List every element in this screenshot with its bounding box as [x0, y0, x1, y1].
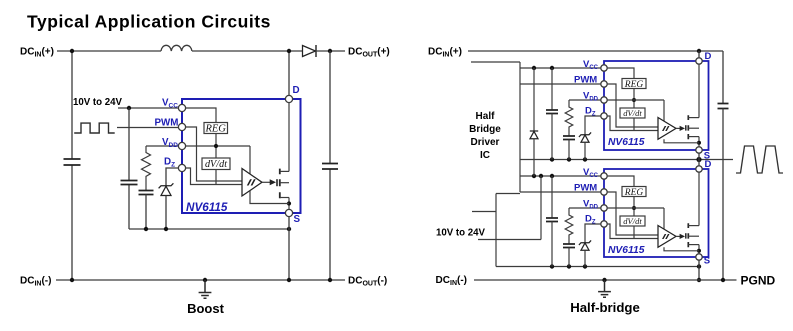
wire bottom ground rail — [56, 279, 345, 281]
wire top rail left segment — [57, 50, 161, 52]
pin DZ — [178, 164, 185, 171]
wire dV/dt output — [633, 226, 635, 239]
gate driver amplifier triangle — [242, 169, 262, 197]
resistor R-top + capacitor — [565, 100, 573, 136]
wire amp return — [664, 247, 699, 251]
wire amp output to gate — [262, 181, 270, 183]
junction S-D column/switch rail — [696, 157, 701, 162]
wire drain bus to D pin — [698, 65, 700, 118]
transistor Q3 source tap — [688, 244, 699, 246]
svg-text:NV6115: NV6115 — [608, 137, 645, 148]
diode D1 (boost rectifier) — [303, 46, 316, 57]
junction cap/VCC low — [550, 174, 554, 178]
op-amp U2 NV6115 top body outline — [604, 61, 709, 150]
wire source to S pin — [288, 198, 290, 214]
pin VDD — [178, 142, 185, 149]
wire amp output to gate — [676, 235, 680, 237]
transistor Q1 channel segments — [279, 169, 281, 199]
svg-text:dV/dt: dV/dt — [205, 159, 228, 170]
svg-text:Half-bridge: Half-bridge — [570, 300, 640, 315]
transistor Q3 channel segments — [687, 223, 689, 247]
wire driver output stub (bottom) — [472, 211, 496, 213]
svg-text:DCOUT(+): DCOUT(+) — [348, 47, 390, 59]
svg-text:PWM: PWM — [574, 183, 597, 194]
op-amp U3 NV6115 bottom body outline — [604, 169, 709, 257]
pin VDD — [601, 205, 607, 211]
wire left input rail (vertical) — [71, 51, 73, 280]
gate driver amplifier triangle — [658, 226, 676, 248]
transistor Q2 channel segments — [687, 115, 689, 139]
pin VCC — [601, 173, 607, 179]
wire driver lower jog vertical — [495, 194, 497, 267]
wire REG to dV/dt with VDD junction — [215, 134, 217, 159]
wire zener to gnd rail — [165, 196, 167, 230]
junction S column/gnd rail — [697, 264, 701, 268]
transistor Q2 drain tap — [688, 117, 699, 119]
junction output rail/gnd — [328, 278, 332, 282]
wire DZ to zener (top) — [585, 116, 604, 135]
transistor Q1 source tap — [280, 197, 289, 199]
svg-text:DCIN(-): DCIN(-) — [436, 275, 467, 287]
svg-text:dV/dt: dV/dt — [623, 216, 642, 226]
pin VDD — [601, 97, 607, 103]
svg-text:D: D — [705, 51, 712, 62]
wire supply riser — [540, 176, 542, 240]
svg-text:PWM: PWM — [574, 75, 597, 86]
transistor Q1 GaN FET gate bar — [276, 179, 278, 186]
junction zener/gnd rail — [583, 264, 587, 268]
wire supply line — [478, 239, 541, 241]
svg-text:VDD: VDD — [162, 137, 178, 149]
svg-text:Half: Half — [476, 111, 496, 122]
pin DZ — [601, 221, 607, 227]
junction S/gnd — [287, 278, 291, 282]
pin S — [285, 209, 292, 216]
wire VDD line into amp — [569, 208, 664, 230]
pin S — [696, 254, 702, 260]
transistor Q2 source tap — [688, 136, 699, 138]
arrowhead gate drive — [680, 126, 685, 131]
wire PWM pin to amp input — [182, 127, 242, 181]
wire right output rail (vertical) — [329, 51, 331, 280]
svg-text:PGND: PGND — [741, 274, 776, 288]
regulator REG box — [622, 187, 646, 197]
junction DCIN+/rail — [70, 49, 74, 53]
wire switch-node local rail (top IC) — [520, 159, 733, 161]
regulator REG box — [622, 79, 646, 89]
wire bottom PGND rail — [474, 279, 737, 281]
transistor Q3 drain tap — [688, 225, 699, 227]
svg-text:Bridge: Bridge — [469, 124, 501, 135]
capacitor C-vdd — [139, 191, 154, 195]
svg-text:NV6115: NV6115 — [186, 201, 228, 214]
junction bulk cap/PGND — [721, 278, 725, 282]
wire bulk cap branch upper — [722, 51, 724, 104]
wire top rail right segment — [316, 50, 345, 52]
junction diode cathode / output rail — [328, 49, 332, 53]
svg-text:NV6115: NV6115 — [608, 245, 645, 256]
capacitor C-vcc-top — [551, 68, 553, 110]
wire DZ pin to amp — [604, 116, 658, 131]
capacitor C-vcc — [121, 181, 138, 185]
wire PWM pin to amp — [604, 192, 658, 235]
junction VDD/REG line — [214, 144, 218, 148]
svg-text:DCIN(+): DCIN(+) — [428, 47, 462, 59]
wire VDD line into amp — [569, 100, 664, 122]
transistor Q3 body tap — [688, 235, 699, 237]
zener diode DZ1 — [159, 183, 174, 188]
wire source to S pin — [698, 137, 700, 150]
wire VCC pin to REG — [604, 68, 634, 79]
pin D — [285, 95, 292, 102]
junction ground symbol — [203, 278, 207, 282]
pin D — [696, 166, 702, 172]
svg-text:Driver: Driver — [471, 137, 500, 148]
wire REG to dV/dt — [633, 89, 635, 109]
capacitor C-bulk — [718, 104, 729, 109]
wire PWM high-side line — [520, 83, 604, 85]
dV/dt box — [620, 108, 645, 118]
resistor R-bottom + capacitor — [565, 208, 573, 244]
svg-text:DZ: DZ — [585, 214, 596, 226]
transistor Q1 body tap — [280, 182, 289, 184]
driver glyph inside amp — [662, 234, 670, 239]
svg-text:VDD: VDD — [583, 199, 599, 211]
pin PWM — [601, 81, 607, 87]
wire PWM input — [117, 127, 180, 129]
dV/dt box — [202, 158, 230, 170]
junction cap/gnd rail — [550, 264, 554, 268]
wire amp output to gate — [676, 127, 680, 129]
svg-text:10V to 24V: 10V to 24V — [436, 228, 486, 239]
svg-text:VCC: VCC — [583, 167, 599, 179]
junction source rail/S column — [287, 227, 291, 231]
junction top rail/D pin — [697, 49, 701, 53]
regulator REG box — [204, 123, 228, 134]
switch node output waveform symbol — [736, 146, 783, 173]
wire VCC low-side line — [520, 175, 604, 177]
gate driver amplifier triangle — [658, 118, 676, 140]
wire local source rail — [129, 228, 289, 230]
svg-text:REG: REG — [624, 188, 644, 198]
pin VCC — [601, 65, 607, 71]
wire dV/dt output — [633, 118, 635, 131]
pin DZ — [601, 113, 607, 119]
wire R-C to gnd rail — [145, 195, 147, 230]
wire top rail — [468, 50, 723, 52]
junction source/amp return — [697, 249, 701, 253]
wire D pin stub — [698, 51, 700, 58]
svg-text:DZ: DZ — [164, 157, 175, 169]
wire driver lower jog horizontal — [496, 193, 520, 195]
wire DZ pin to amp — [604, 224, 658, 239]
wire supply cap branch — [128, 108, 130, 229]
wire S(top)-D(bottom) switch column — [698, 154, 700, 166]
driver glyph inside amp — [662, 126, 670, 131]
junction zener/rail — [164, 227, 168, 231]
wire DZ pin to amp input 2 — [182, 168, 242, 185]
arrowhead gate drive — [270, 179, 276, 185]
wire VCC pin to REG — [182, 108, 216, 122]
wire S pin to ground rail — [288, 217, 290, 280]
wire VDD to amp supply — [249, 146, 251, 174]
zener diode DZ-bottom — [579, 240, 591, 245]
svg-text:Boost: Boost — [187, 301, 225, 316]
svg-text:DCOUT(-): DCOUT(-) — [348, 276, 387, 288]
wire top rail mid segment — [192, 50, 302, 52]
transistor Q2 body tap — [688, 127, 699, 129]
svg-text:VCC: VCC — [162, 98, 178, 110]
transistor Q1 drain tap — [280, 170, 289, 172]
wire dV/dt output — [215, 170, 217, 185]
svg-text:DCIN(-): DCIN(-) — [20, 276, 51, 288]
junction supply/cap — [127, 106, 131, 110]
junction ground symbol (right) — [602, 278, 606, 282]
wire VCC pin to REG — [604, 176, 634, 187]
wire PWM pin to amp — [604, 84, 658, 127]
op-amp U1 NV6115 body outline — [182, 99, 301, 213]
junction R-C/rail — [144, 227, 148, 231]
wire PWM low-side line — [520, 191, 604, 193]
pin VCC — [178, 104, 185, 111]
wire VDD line with resistor corner — [146, 145, 250, 147]
junction bootstrap anode — [532, 174, 536, 178]
svg-text:DCIN(+): DCIN(+) — [20, 47, 54, 59]
wire source to S pin — [698, 245, 700, 257]
capacitor C-out — [322, 164, 338, 170]
svg-text:S: S — [704, 256, 710, 267]
pin PWM — [601, 189, 607, 195]
junction left rail/gnd — [70, 278, 74, 282]
PWM square wave source symbol — [74, 123, 115, 133]
svg-text:S: S — [294, 214, 301, 225]
zener diode DZ-top — [579, 132, 591, 137]
svg-text:REG: REG — [624, 80, 644, 90]
pin S — [696, 147, 702, 153]
inductor L1 — [161, 45, 192, 51]
wire REG to dV/dt — [633, 197, 635, 217]
svg-text:VCC: VCC — [583, 59, 599, 71]
wire amp return — [250, 191, 289, 204]
transistor Q2 gate bar — [685, 125, 687, 130]
wire drain bus to D pin — [288, 103, 290, 171]
wire driver bus vertical — [519, 62, 521, 192]
junction cap/local rail — [550, 157, 554, 161]
svg-text:IC: IC — [480, 150, 490, 161]
dV/dt box — [620, 216, 645, 226]
svg-text:REG: REG — [204, 124, 226, 135]
wire VCC high-side line — [520, 67, 604, 69]
bootstrap diode D2 — [533, 68, 535, 131]
wire amp return — [664, 139, 699, 143]
pin D — [696, 58, 702, 64]
arrowhead gate drive — [680, 234, 685, 239]
junction zener/local rail — [583, 157, 587, 161]
svg-text:dV/dt: dV/dt — [623, 108, 642, 118]
wire drain bus to D pin — [698, 173, 700, 226]
svg-text:PWM: PWM — [155, 118, 179, 129]
wire S(bottom) to ground rails — [698, 261, 700, 281]
ground — [598, 280, 611, 297]
wire low-side local ground rail — [496, 266, 699, 268]
svg-text:D: D — [293, 85, 300, 96]
wire bulk cap branch lower — [722, 109, 724, 281]
junction switch node top — [287, 49, 291, 53]
junction RC/gnd rail — [567, 264, 571, 268]
resistor R1 — [142, 146, 151, 191]
svg-text:10V to 24V: 10V to 24V — [73, 97, 123, 108]
capacitor C-in — [64, 159, 81, 165]
junction VDD/REG line — [632, 98, 636, 102]
junction source/amp return — [697, 141, 701, 145]
junction VDD/REG line — [632, 206, 636, 210]
wire VCC supply — [118, 107, 180, 109]
wire switch node vertical (inductor-diode junction to D pin) — [288, 51, 290, 95]
junction supply/VCC low — [539, 174, 543, 178]
wire DZ to zener (bottom) — [585, 224, 604, 243]
svg-text:D: D — [705, 159, 712, 170]
wire DZ to zener — [166, 168, 182, 186]
ground — [199, 280, 212, 298]
pin PWM — [178, 123, 185, 130]
junction S bottom/PGND — [697, 278, 701, 282]
transistor Q3 gate bar — [685, 233, 687, 238]
junction bootstrap diode/VCC — [532, 66, 536, 70]
wire driver output stub (top) — [471, 61, 520, 63]
driver glyph inside amp — [247, 179, 256, 185]
svg-text:Typical Application Circuits: Typical Application Circuits — [27, 12, 271, 32]
junction RC/local rail — [567, 157, 571, 161]
capacitor C-vcc-bottom — [551, 176, 553, 218]
svg-text:VDD: VDD — [583, 91, 599, 103]
svg-text:DZ: DZ — [585, 106, 596, 118]
junction VCC cap/VCC — [550, 66, 554, 70]
junction source/amp return — [287, 201, 291, 205]
